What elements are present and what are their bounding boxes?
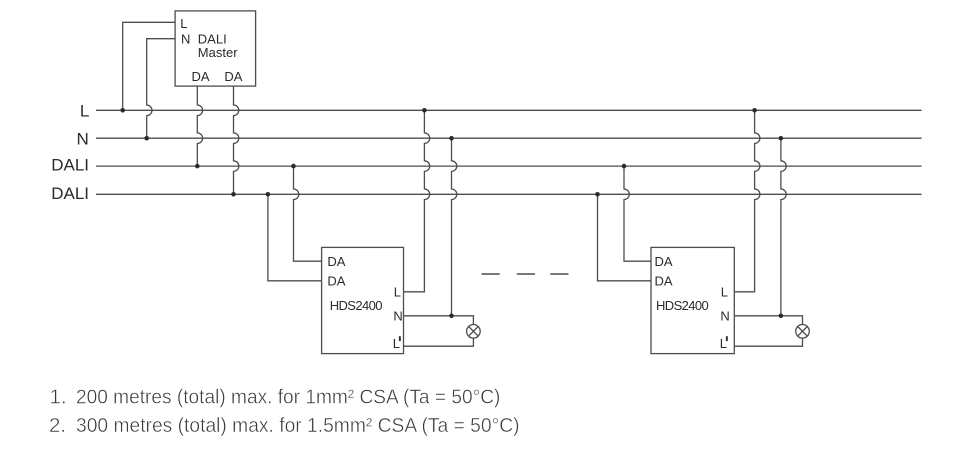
junction U2.N on N bus [449,136,454,141]
svg-text:DA: DA [224,69,242,84]
wire U2.N to N bus with hops over DALI1, DALI2 [452,138,457,316]
lamp E2 [796,325,810,339]
junction U1.N on N bus [144,136,149,141]
net L bus label [80,101,89,120]
wire U2.L' to lamp E1 [404,338,474,346]
wire U1.L to L bus [123,22,175,110]
DALI Master pin L label [180,16,187,31]
junction U2.DA1 on DALI bus 1 [291,164,296,169]
HDS2400 U3 pin N label [720,308,729,323]
svg-text:HDS2400: HDS2400 [330,298,383,313]
wire U2.L to L bus with hops over N, DALI1, DALI2 [404,110,430,291]
HDS2400 U2 name label [330,298,383,313]
junction U2.DA2 on DALI bus 2 [266,192,271,197]
HDS2400 U3 name label [656,298,709,313]
svg-text:L: L [394,285,401,300]
junction U3.DA1 on DALI bus 1 [622,164,627,169]
svg-text:DA: DA [327,254,345,269]
junction U2.L on L bus [422,108,427,113]
continuation dashes [482,273,569,275]
svg-text:DA: DA [192,69,210,84]
net DALI bus 2 [96,193,922,195]
svg-text:2.: 2. [49,414,66,437]
wire U2.DA2 to DALI bus 2 [268,194,322,280]
wire U2.DA1 to DALI bus 1 with hop over DALI2 [294,166,322,261]
HDS2400 U3 pin L' label [720,336,728,351]
svg-text:Master: Master [198,45,238,60]
HDS2400 U3 box [651,247,734,353]
net DALI bus 1 label [51,156,89,175]
DALI Master pin N label [181,31,190,46]
note 2 [49,414,520,437]
wire U3.N to N bus with hops over DALI1, DALI2 [781,138,786,316]
svg-text:N: N [720,308,729,323]
junction U1.DA2 on DALI bus 2 [231,192,236,197]
svg-text:N: N [77,129,89,148]
svg-text:DA: DA [327,273,345,288]
wire U1.N to N bus with hop over L [147,39,175,139]
HDS2400 U2 pin DA1 label [327,254,345,269]
wire U1.DA1 to DALI bus 1 with hops over L and N [197,86,202,166]
junction U3.N on N bus [779,136,784,141]
note 1 [50,385,501,408]
wire U2.N to lamp E1 [404,316,474,325]
junction on U2.N wire [449,314,454,319]
junction U3.DA2 on DALI bus 2 [595,192,600,197]
net DALI bus 2 label [51,184,89,203]
DALI Master pin DA2 label [224,69,242,84]
svg-text:N: N [393,308,402,323]
net N bus [96,137,922,139]
wire U3.DA1 to DALI bus 1 with hop over DALI2 [624,166,651,261]
DALI Master name label [198,31,238,60]
HDS2400 U3 pin DA2 label [655,273,673,288]
DALI Master U1 box [175,11,256,86]
net L bus [96,109,922,111]
junction on U3.N wire [779,314,784,319]
junction U1.DA1 on DALI bus 1 [195,164,200,169]
junction U1.L on L bus [120,108,125,113]
svg-text:L: L [80,101,89,120]
svg-text:DALI: DALI [51,184,89,203]
wire U3.L' to lamp E2 [734,338,802,346]
junction U3.L on L bus [752,108,757,113]
HDS2400 U2 pin L label [394,285,401,300]
wire U1.DA2 to DALI bus 2 with hops over L, N, DALI1 [234,86,239,194]
svg-text:DALI: DALI [51,156,89,175]
wire U3.DA2 to DALI bus 2 [598,194,652,280]
HDS2400 U2 pin N label [393,308,402,323]
HDS2400 U3 pin DA1 label [655,254,673,269]
wire U3.N to lamp E2 [734,316,802,325]
HDS2400 U3 pin L label [721,285,728,300]
svg-text:N: N [181,31,190,46]
net DALI bus 1 [96,165,922,167]
svg-text:200 metres (total) max. for 1m: 200 metres (total) max. for 1mm² CSA (Ta… [76,385,500,408]
lamp E1 [467,325,481,339]
svg-text:300 metres (total) max. for 1.: 300 metres (total) max. for 1.5mm² CSA (… [76,414,520,437]
svg-text:L: L [721,285,728,300]
HDS2400 U2 pin L' label [393,336,401,351]
HDS2400 U2 box [322,247,404,353]
DALI Master pin DA1 label [192,69,210,84]
svg-text:1.: 1. [50,385,67,408]
HDS2400 U2 pin DA2 label [327,273,345,288]
svg-text:L: L [180,16,187,31]
net N bus label [77,129,89,148]
svg-text:HDS2400: HDS2400 [656,298,709,313]
svg-text:DA: DA [655,273,673,288]
svg-text:DA: DA [655,254,673,269]
wire U3.L to L bus with hops over N, DALI1, DALI2 [734,110,760,291]
